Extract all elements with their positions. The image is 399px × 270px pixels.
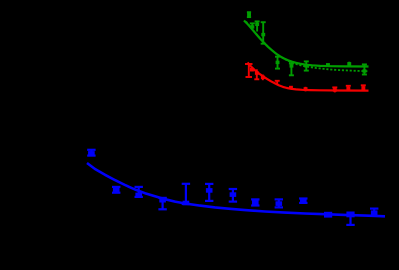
green data point 2a xyxy=(250,23,255,30)
inset: green solid fit curve xyxy=(244,21,369,67)
green data point 2b xyxy=(255,21,260,31)
red data point 6 xyxy=(304,87,308,92)
blue data point 9 xyxy=(275,199,283,207)
blue data point 1 xyxy=(87,150,95,156)
blue data point 8 xyxy=(251,199,259,205)
green data point 8 xyxy=(347,62,351,67)
green data point 9 xyxy=(362,64,367,74)
blue data point 3 xyxy=(135,187,143,197)
blue data point 5 xyxy=(182,184,190,206)
blue data point 6 xyxy=(205,184,213,201)
red data point 2 xyxy=(254,69,259,79)
red data point 8 xyxy=(346,86,351,91)
green data point 3 xyxy=(261,22,266,44)
red data point 1 xyxy=(245,64,254,77)
blue data point 13 xyxy=(370,209,378,216)
red data point 5 xyxy=(289,86,293,90)
green data point 1 (clipped at inset top-left) xyxy=(247,12,251,18)
red data point 7 xyxy=(332,87,337,92)
blue data point 11 xyxy=(324,212,332,218)
blue data point 10 xyxy=(299,199,307,204)
green data point 5 xyxy=(289,63,294,75)
blue data point 7 xyxy=(229,189,237,202)
blue data point 12 xyxy=(346,212,354,225)
red data point 9 xyxy=(361,85,366,90)
green data point 6 xyxy=(304,61,309,70)
red data point 4 xyxy=(275,81,280,85)
blue fit curve (main plot) xyxy=(87,163,385,216)
blue data point 2 xyxy=(112,187,120,193)
blue data point 4 xyxy=(158,198,166,209)
green data point 4 xyxy=(275,57,280,69)
inset: green dashed fit curve xyxy=(246,22,369,72)
inset: red fit curve xyxy=(248,63,369,91)
green data point 7 xyxy=(326,63,330,66)
red data point 3 xyxy=(261,75,265,81)
